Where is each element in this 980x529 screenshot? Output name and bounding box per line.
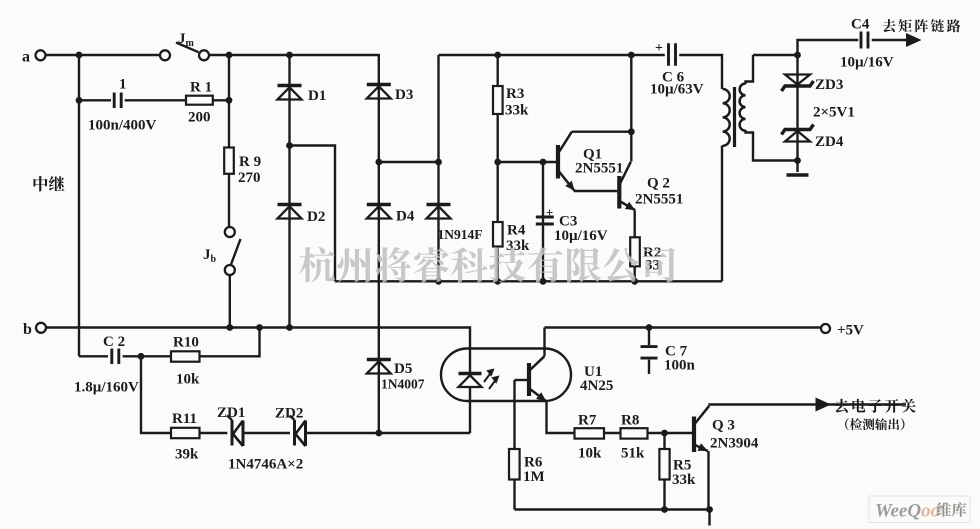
svg-text:b: b xyxy=(23,321,32,338)
wire +5V rail xyxy=(545,326,821,328)
svg-text:10µ/16V: 10µ/16V xyxy=(840,55,894,71)
junction rail2 R3 xyxy=(494,52,501,59)
watermark WeeQoo box xyxy=(869,496,970,523)
capacitor C7 plates xyxy=(641,347,658,359)
wire C2 R10 row xyxy=(79,355,108,357)
switch Jm right contact xyxy=(199,50,209,60)
wire Q1 collector to center column xyxy=(572,130,632,132)
label （检测输出） (detection output) xyxy=(845,418,904,430)
junction base row C3 xyxy=(540,159,547,166)
svg-text:R11: R11 xyxy=(172,411,197,427)
ground bar xyxy=(787,173,809,176)
wire D3 D4 D5 column xyxy=(378,74,380,433)
resistor R1 xyxy=(186,96,213,105)
resistor R5 xyxy=(659,449,669,480)
wire R3 column xyxy=(497,55,499,162)
wire Q2 emitter to R2 to lower rail xyxy=(634,211,636,282)
wire R7 to R8 xyxy=(604,432,621,434)
svg-text:1N4007: 1N4007 xyxy=(381,377,425,392)
svg-text:D2: D2 xyxy=(307,209,325,225)
transformer T1 secondary winding xyxy=(740,84,746,131)
junction lower rail R4 xyxy=(494,278,501,285)
optocoupler U1 LED xyxy=(459,374,482,388)
wire R9 column top xyxy=(228,55,230,148)
wire rail-a from Jm to D3 corner, down to D3 xyxy=(209,55,379,74)
svg-text:WeeQoo: WeeQoo xyxy=(875,501,940,522)
svg-text:39k: 39k xyxy=(175,447,199,463)
svg-text:1M: 1M xyxy=(523,469,545,485)
wire transformer primary bottom to lower rail xyxy=(721,146,723,282)
optocoupler U1 phototransistor xyxy=(529,356,546,401)
svg-text:ZD3: ZD3 xyxy=(815,77,843,93)
svg-text:1N4746A×2: 1N4746A×2 xyxy=(228,457,303,473)
svg-text:1.8µ/160V: 1.8µ/160V xyxy=(74,380,139,396)
wire opto transistor collector to +5V rail xyxy=(543,328,545,357)
diode D3 xyxy=(367,85,391,99)
switch Jm left contact xyxy=(160,50,170,60)
svg-text:D5: D5 xyxy=(394,361,412,377)
capacitor C3 plates xyxy=(536,217,554,224)
wire R6 column xyxy=(513,380,515,510)
wire opto base lead xyxy=(515,379,528,381)
watermark 杭州将睿科技有限公司 xyxy=(299,247,675,283)
svg-text:Q 3: Q 3 xyxy=(712,418,735,434)
junction rail b R10 riser xyxy=(256,324,263,331)
svg-text:R 1: R 1 xyxy=(190,80,212,96)
junction D1-D2 / L-link xyxy=(286,142,293,149)
wire R11 to ZD1 xyxy=(200,432,228,434)
wire C6 to transformer primary xyxy=(679,55,722,89)
wire node link D3-D4 to 1N914F xyxy=(379,161,439,163)
wire C7 hang xyxy=(648,328,650,346)
resistor R8 xyxy=(621,428,648,438)
svg-text:4N25: 4N25 xyxy=(580,378,613,394)
wire R5 column xyxy=(663,433,665,510)
wire C4 to arrow xyxy=(872,39,906,41)
switch Jb bottom contact xyxy=(225,265,235,275)
svg-text:100n/400V: 100n/400V xyxy=(88,118,157,134)
svg-text:R10: R10 xyxy=(173,335,199,351)
wire cap1 to R1 xyxy=(125,99,186,101)
diode D4 xyxy=(367,205,391,219)
junction D3-D4 node xyxy=(375,159,382,166)
arrow to matrix link xyxy=(906,33,922,47)
wire R9 to Jb switch xyxy=(228,174,230,227)
svg-text:D3: D3 xyxy=(395,87,413,103)
resistor R10 xyxy=(171,351,200,361)
svg-text:R3: R3 xyxy=(506,86,524,102)
wire left column from node a down to C2 row xyxy=(78,55,80,356)
capacitor C6 plates xyxy=(669,43,676,66)
junction lower rail C3 xyxy=(540,278,547,285)
wire Q3 emitter column xyxy=(707,451,709,510)
wire lower rail of converter section xyxy=(335,280,722,282)
wire ground stub below ZD4 xyxy=(796,161,798,173)
svg-text:33k: 33k xyxy=(672,472,696,488)
label 去电子开关 (to electronic switch) xyxy=(835,399,916,413)
svg-text:C4: C4 xyxy=(851,17,870,33)
wire D1 D2 column xyxy=(288,55,290,328)
zener ZD2 1N4746A xyxy=(290,416,306,447)
arrow to electronic switch xyxy=(816,398,832,412)
svg-text:2N5551: 2N5551 xyxy=(635,192,683,208)
transformer T1 primary winding xyxy=(723,89,730,146)
label 去矩阵链路 (to matrix link) xyxy=(883,19,961,32)
diode D1 xyxy=(278,86,302,100)
junction lower rail 1N914F xyxy=(435,278,442,285)
resistor R9 xyxy=(224,148,234,174)
junction ZD4 bottom node xyxy=(794,157,801,164)
switch Jb blade xyxy=(231,239,241,265)
wire Jb to rail b xyxy=(229,275,231,328)
svg-text:+: + xyxy=(655,41,663,56)
optocoupler U1 light arrows xyxy=(484,370,498,389)
svg-text:+5V: +5V xyxy=(837,323,864,339)
svg-text:200: 200 xyxy=(188,110,211,126)
wire C2 to R10 xyxy=(123,355,171,357)
wire snubber rail down-leg to 1N914F xyxy=(437,55,439,281)
zener ZD3 (triangle down, bar below) xyxy=(782,75,814,92)
capacitor C4 plates xyxy=(861,32,868,49)
junction rail2 center column xyxy=(628,52,635,59)
svg-text:2N5551: 2N5551 xyxy=(575,161,623,177)
junction lower rail R2 xyxy=(631,278,638,285)
svg-text:R4: R4 xyxy=(507,223,526,239)
transformer T1 core xyxy=(733,87,736,147)
wire R4 column xyxy=(497,162,499,281)
wire C2 node down to R11 row xyxy=(141,356,171,433)
wire bottom rail xyxy=(515,508,710,510)
transistor Q2 2N5551 xyxy=(619,162,635,210)
svg-text:1N914F: 1N914F xyxy=(438,227,483,242)
svg-text:270: 270 xyxy=(238,170,261,186)
wire R1 to R9 column xyxy=(213,99,229,101)
wire Q1 base row xyxy=(498,161,556,163)
wire ZD2 to opto LED cathode xyxy=(306,432,470,434)
wire C3 column xyxy=(542,162,544,281)
capacitor C2 plates xyxy=(112,349,119,365)
wire rail-a from terminal a to Jm switch xyxy=(46,54,161,56)
zener ZD4 (bar above, triangle up) xyxy=(782,125,814,142)
svg-text:51k: 51k xyxy=(621,446,645,462)
svg-text:Q 2: Q 2 xyxy=(647,176,670,192)
svg-text:10k: 10k xyxy=(578,446,602,462)
svg-text:33k: 33k xyxy=(506,238,530,254)
resistor R2 xyxy=(630,237,640,266)
switch Jm blade xyxy=(176,43,199,53)
svg-text:a: a xyxy=(22,49,30,66)
resistor R6 xyxy=(509,449,520,480)
junction R1 right xyxy=(226,97,233,104)
junction ZD3 top node xyxy=(794,52,801,59)
wire ground stub bottom right xyxy=(708,510,710,526)
svg-text:1: 1 xyxy=(119,77,127,93)
terminal b xyxy=(36,323,46,333)
wire C7 stub xyxy=(648,360,650,374)
svg-text:ZD4: ZD4 xyxy=(815,134,844,150)
transistor Q3 2N3904 xyxy=(694,406,709,452)
wire ZD node up to C4 xyxy=(798,40,859,55)
junction cap1 left column xyxy=(76,97,83,104)
junction base row R3-R4 xyxy=(494,159,501,166)
svg-text:R 9: R 9 xyxy=(239,154,261,170)
junction 1N914F top xyxy=(435,159,442,166)
junction R8-R5-Q3 base xyxy=(661,430,668,437)
junction Jm-R1 column top xyxy=(226,52,233,59)
wire R10 to rail b riser xyxy=(200,328,260,357)
svg-text:C 2: C 2 xyxy=(103,334,125,350)
svg-text:100n: 100n xyxy=(664,358,696,374)
switch Jb top contact xyxy=(225,227,235,237)
svg-text:R7: R7 xyxy=(578,413,597,429)
junction D1 top xyxy=(286,52,293,59)
wire L-link from D1-D2 node to lower rail xyxy=(290,146,336,282)
svg-text:10k: 10k xyxy=(176,372,200,388)
wire opto emitter down xyxy=(547,402,575,434)
junction bottom rail R5 xyxy=(661,506,668,513)
resistor R7 xyxy=(575,428,605,438)
svg-text:R8: R8 xyxy=(621,413,639,429)
terminal a xyxy=(36,50,46,60)
wire R8 to Q3 base xyxy=(648,432,693,434)
terminal +5V xyxy=(821,324,830,333)
junction D5 bottom row xyxy=(375,430,382,437)
transistor Q1 2N5551 xyxy=(558,132,575,191)
svg-text:ZD1: ZD1 xyxy=(217,405,245,421)
wire rail b xyxy=(47,328,471,374)
diode 1N914F xyxy=(427,205,451,219)
junction C2-R10-R11 node xyxy=(138,353,145,360)
resistor R4 xyxy=(493,222,503,247)
optocoupler U1 4N25 body xyxy=(441,349,571,402)
resistor R3 xyxy=(493,86,503,114)
wire cap1 row xyxy=(79,99,111,101)
svg-text:33k: 33k xyxy=(505,103,529,119)
diode D2 xyxy=(278,205,302,219)
wire secondary top to ZD node xyxy=(753,54,798,56)
wire center column rail2 to Q2 collector xyxy=(630,55,632,162)
zener ZD1 1N4746A xyxy=(227,416,243,447)
svg-text:10µ/63V: 10µ/63V xyxy=(650,82,704,98)
svg-text:2N3904: 2N3904 xyxy=(710,436,759,452)
watermark 维库 xyxy=(937,502,967,517)
junction +5V rail C7 xyxy=(646,324,653,331)
junction rail b D2 xyxy=(286,324,293,331)
svg-text:D1: D1 xyxy=(308,88,326,104)
wire secondary column bottom xyxy=(746,130,798,161)
resistor R11 xyxy=(171,428,200,438)
wire snubber top rail to C6 xyxy=(439,54,665,56)
junction rail b Jb xyxy=(226,324,233,331)
wire secondary column top xyxy=(746,55,754,84)
svg-text:±: ± xyxy=(546,205,553,220)
wire ZD3 ZD4 chain xyxy=(796,55,798,161)
diode D5 1N4007 xyxy=(367,360,391,374)
capacitor 1 plates xyxy=(114,93,121,109)
wire opto LED column xyxy=(469,388,471,433)
wire Q3 collector to output arrow xyxy=(710,405,907,406)
junction Q1 collector / center column xyxy=(628,128,635,135)
wire Q1 emitter to Q2 base xyxy=(574,190,617,192)
junction bottom rail Q3 emitter xyxy=(706,506,713,513)
label 中继 (relay) xyxy=(34,176,65,192)
wire ZD1 to ZD2 xyxy=(243,432,290,434)
junction node a / left column xyxy=(76,52,83,59)
svg-text:2×5V1: 2×5V1 xyxy=(813,105,855,121)
svg-text:ZD2: ZD2 xyxy=(275,406,303,422)
svg-text:10µ/16V: 10µ/16V xyxy=(554,228,608,244)
svg-text:D4: D4 xyxy=(396,209,415,225)
